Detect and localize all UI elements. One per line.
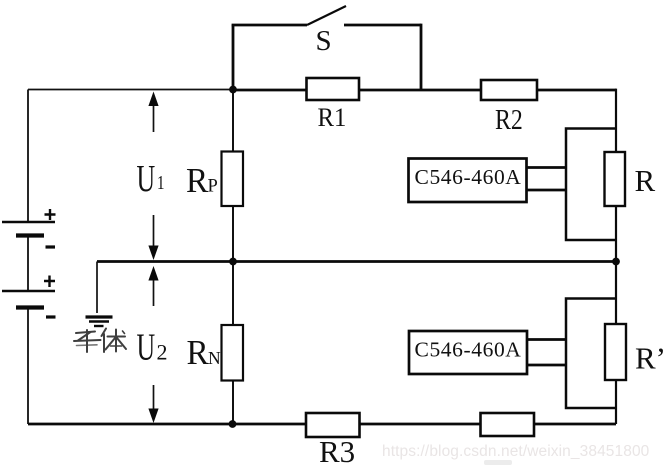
- label RP: [186, 162, 218, 200]
- ground symbol (chassis): [86, 317, 113, 326]
- wire lower bracket: [566, 299, 616, 409]
- wire switch top-left horizontal: [232, 24, 307, 27]
- battery B1 short plate: [16, 233, 44, 237]
- svg-text:R: R: [635, 163, 656, 198]
- svg-text:C546-460A: C546-460A: [415, 338, 522, 362]
- battery B2 plus label: [44, 276, 55, 288]
- wire lower sensor stub top: [527, 338, 566, 341]
- node junction middle-left: [229, 258, 237, 266]
- resistor R' box: [605, 324, 626, 380]
- label 车体 (chassis) drawn strokes: [74, 329, 126, 353]
- svg-text:S: S: [316, 25, 332, 57]
- resistor R4 box (unlabeled): [481, 413, 535, 436]
- svg-text:R2: R2: [495, 104, 523, 135]
- battery B2 short plate: [16, 305, 44, 309]
- resistor RP box: [222, 152, 244, 207]
- battery B2 long plate: [2, 290, 55, 293]
- resistor R2 box: [481, 80, 537, 100]
- label U1: [137, 158, 165, 200]
- resistor R box: [605, 152, 626, 206]
- svg-text:P: P: [208, 177, 218, 197]
- arrow U1 up: [148, 92, 158, 133]
- battery B1 long plate: [2, 221, 55, 224]
- svg-text:R3: R3: [319, 434, 355, 467]
- battery B1 plus label: [45, 209, 56, 220]
- svg-text:R’: R’: [635, 341, 663, 376]
- svg-text:R1: R1: [318, 103, 347, 132]
- wire right vertical: [615, 89, 617, 424]
- switch S blade: [307, 6, 346, 25]
- wire upper sensor stub top: [527, 166, 566, 169]
- label RN: [187, 334, 222, 372]
- wire upper sensor stub bottom: [527, 189, 566, 192]
- svg-text:R: R: [187, 334, 209, 372]
- label U2: [137, 327, 168, 369]
- wire left vertical (battery branch): [27, 90, 29, 425]
- svg-text:N: N: [208, 348, 221, 368]
- node junction bottom: [229, 420, 237, 428]
- svg-text:R: R: [186, 162, 208, 200]
- arrow U2 up: [148, 266, 158, 306]
- svg-text:U: U: [137, 158, 156, 200]
- resistor RN box: [222, 325, 244, 381]
- svg-text:https://blog.csdn.net/weixin_3: https://blog.csdn.net/weixin_38451800: [382, 443, 650, 460]
- resistor R1 box: [307, 78, 360, 100]
- svg-text:C546-460A: C546-460A: [415, 165, 522, 189]
- svg-text:U: U: [137, 327, 156, 369]
- watermark fragment: [484, 460, 512, 465]
- svg-text:2: 2: [157, 340, 168, 365]
- battery B2 minus label: [46, 315, 56, 318]
- battery B1 minus label: [46, 245, 56, 248]
- resistor R3 box: [306, 413, 360, 437]
- wire ground drop: [96, 262, 98, 314]
- svg-text:1: 1: [157, 171, 164, 194]
- node junction top: [229, 86, 237, 94]
- arrow U1 down: [148, 215, 158, 260]
- wire switch bypass left vertical: [232, 25, 235, 91]
- wire top-main horizontal: [233, 89, 616, 92]
- wire switch right drop vertical: [420, 24, 423, 90]
- node junction middle-right: [612, 258, 620, 266]
- wire upper bracket: [566, 129, 616, 241]
- sensor U2 box C546-460A: [409, 331, 527, 374]
- arrow U2 down: [148, 385, 158, 423]
- wire bottom horizontal: [28, 423, 616, 426]
- wire lower sensor stub bottom: [527, 364, 566, 367]
- sensor U1 box C546-460A: [409, 159, 527, 203]
- wire middle horizontal: [97, 260, 616, 263]
- wire switch top-right horizontal: [344, 24, 421, 27]
- wire top-left horizontal: [28, 89, 233, 91]
- wire center vertical: [232, 90, 234, 424]
